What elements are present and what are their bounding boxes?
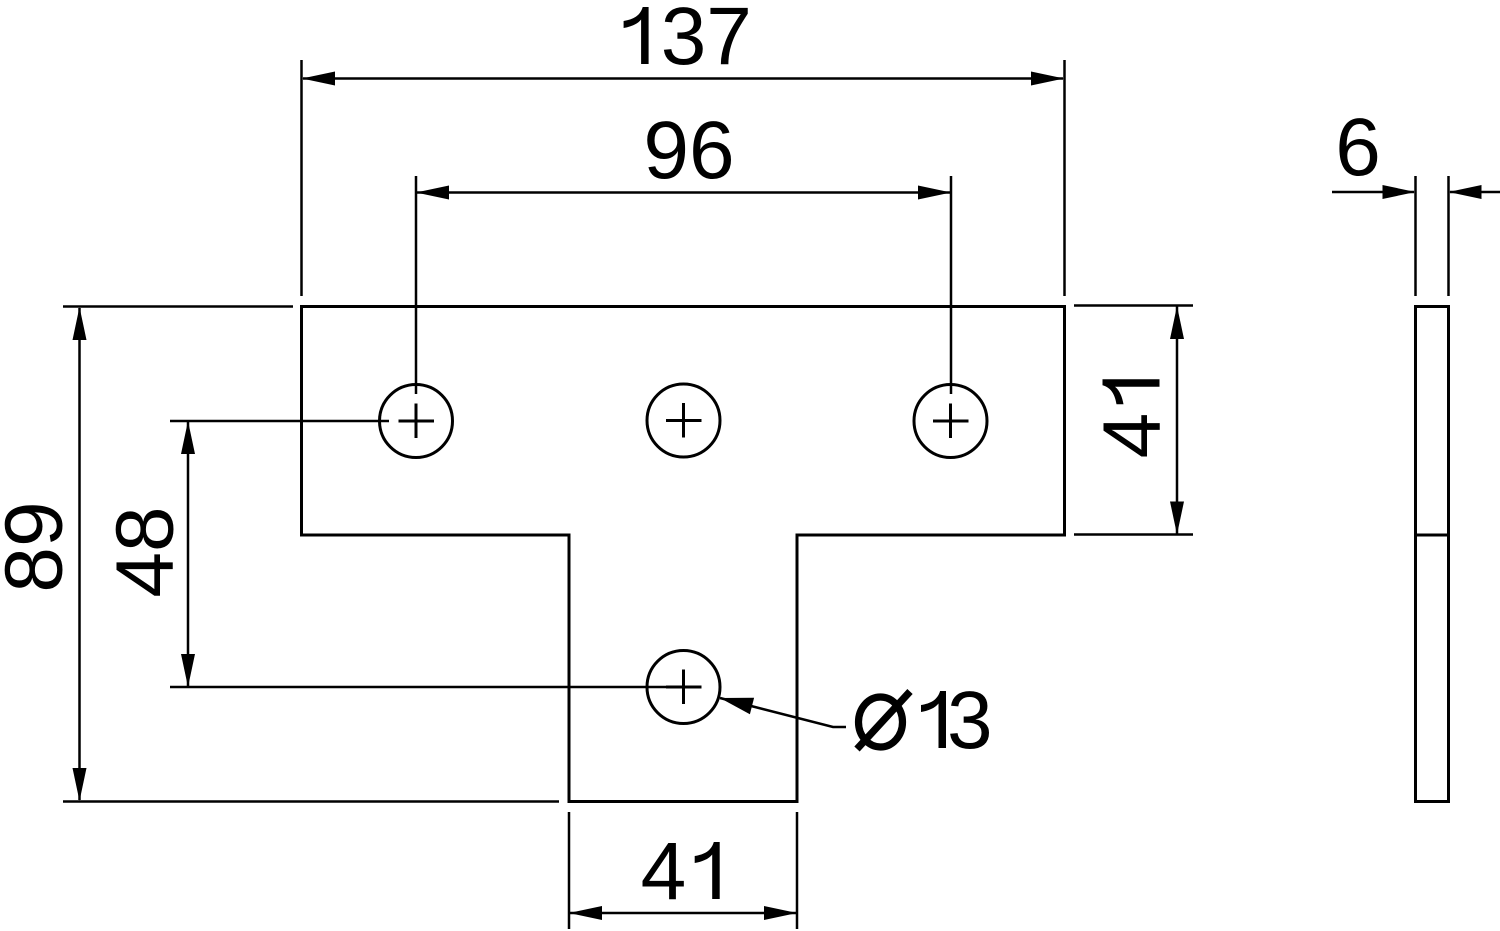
side view step edge: [1416, 534, 1449, 537]
hole H3 circle: [914, 385, 987, 458]
hole H2 circle: [647, 384, 720, 457]
dimension 96: [416, 176, 951, 394]
dimension 41 bottom: [569, 812, 797, 929]
svg-text:96: 96: [643, 105, 734, 196]
leader line Ø13: [720, 698, 846, 727]
dimension 41 right: [1074, 306, 1193, 535]
dimension 48: [170, 421, 666, 687]
svg-text:37: 37: [661, 0, 752, 82]
dimension 137: [302, 60, 1065, 296]
dimension 6 (side view thickness): [1332, 176, 1500, 296]
hole H4 center cross: [666, 670, 702, 705]
hole H1 center cross: [399, 404, 435, 439]
label Ø13: [857, 675, 993, 766]
svg-text:4: 4: [641, 826, 687, 917]
svg-text:89: 89: [0, 501, 80, 592]
hole H1 circle: [380, 385, 453, 458]
svg-text:6: 6: [1335, 102, 1381, 193]
svg-text:48: 48: [100, 506, 191, 597]
leader arrow Ø13: [720, 698, 754, 715]
dimension 89: [63, 307, 559, 802]
svg-text:4: 4: [1087, 413, 1178, 459]
hole H3 center cross: [933, 404, 969, 439]
svg-text:3: 3: [947, 675, 993, 766]
plate front view outline: [302, 307, 1065, 802]
side view outline: [1416, 307, 1449, 802]
hole H4 circle (stem): [647, 651, 720, 724]
hole H2 center cross: [666, 403, 702, 438]
